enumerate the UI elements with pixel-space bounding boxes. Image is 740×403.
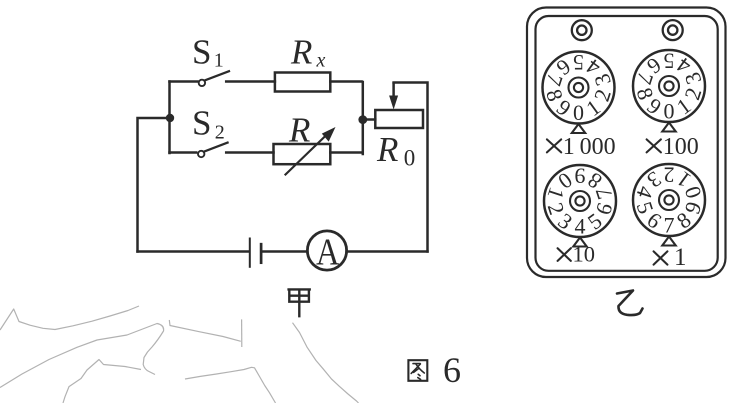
svg-text:S: S [192, 104, 211, 143]
svg-text:R: R [288, 111, 310, 150]
svg-text:1: 1 [214, 50, 224, 72]
svg-text:9: 9 [575, 164, 586, 189]
svg-text:1: 1 [674, 244, 687, 271]
svg-text:0: 0 [404, 146, 416, 171]
svg-text:S: S [192, 33, 211, 72]
svg-text:1 000: 1 000 [563, 134, 616, 160]
svg-text:100: 100 [663, 134, 699, 160]
svg-text:R: R [290, 33, 312, 72]
svg-text:R: R [376, 130, 398, 169]
svg-text:x: x [316, 50, 326, 72]
svg-text:6: 6 [443, 350, 461, 390]
svg-text:10: 10 [573, 241, 596, 266]
svg-text:2: 2 [215, 122, 225, 144]
svg-text:A: A [316, 231, 340, 273]
